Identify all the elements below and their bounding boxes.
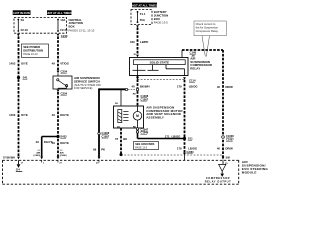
svg-text:49: 49 (52, 141, 56, 145)
battery junction box (131, 10, 152, 25)
callout note box (194, 21, 226, 36)
module boundary dashed box (3, 160, 239, 184)
wire label 40 OR/W lower (217, 146, 233, 150)
svg-text:179: 179 (177, 146, 182, 150)
motor symbol (133, 106, 142, 128)
connector C160 label (190, 51, 197, 58)
compressor relay output caption (205, 176, 232, 183)
service switch caption (74, 76, 101, 90)
relay internal lines (133, 65, 185, 76)
svg-text:S41: S41 (23, 76, 28, 80)
svg-text:40: 40 (131, 85, 135, 89)
svg-text:10A: 10A (60, 18, 65, 22)
fuse F1.1 50A (137, 11, 146, 23)
wire 49 DG/YE below switch (57, 92, 59, 157)
svg-text:S432: S432 (60, 135, 67, 139)
svg-text:RD: RD (133, 93, 137, 95)
svg-text:C1007: C1007 (141, 97, 149, 101)
svg-text:(C490): (C490) (34, 154, 41, 157)
svg-text:BK/WH: BK/WH (140, 85, 149, 89)
svg-text:DO: DO (117, 127, 121, 129)
driver triangle (219, 160, 226, 177)
wire label 40 BK/WH (131, 85, 149, 89)
wire label 433 LB/PK (130, 40, 148, 44)
connector circles C1047 C1046 (136, 127, 148, 134)
svg-text:C1046: C1046 (141, 131, 149, 135)
hot in run label (13, 10, 31, 15)
connector C254 label (top) (61, 69, 68, 73)
svg-text:OR/W: OR/W (225, 146, 233, 150)
relay caption (190, 57, 213, 71)
svg-text:BK: BK (123, 137, 127, 141)
svg-text:HOT IN RUN: HOT IN RUN (13, 11, 29, 15)
svg-text:C1008: C1008 (226, 134, 234, 138)
arrow wire223 into module (222, 157, 225, 160)
svg-text:G4: G4 (16, 168, 20, 172)
wire 40 BK/WH relay to motor (137, 76, 139, 107)
wire label 69 PK (93, 147, 105, 151)
relay bottom connector dashed line C114 (138, 79, 196, 83)
wire branch to x41.7 (42, 136, 58, 138)
svg-text:433: 433 (130, 40, 135, 44)
wire motor output down (137, 128, 139, 139)
svg-text:RD: RD (133, 127, 137, 129)
svg-text:O/YE: O/YE (21, 113, 28, 117)
svg-text:O/YE: O/YE (21, 62, 28, 66)
wire label 40 OR/W upper (217, 85, 233, 89)
wire label 57 BK (115, 137, 127, 141)
svg-text:LB/PK: LB/PK (140, 40, 148, 44)
svg-text:DO: DO (115, 103, 119, 105)
see grounds box (134, 142, 159, 150)
svg-text:(C490): (C490) (60, 154, 67, 157)
hot at all times label (battery junction box) (132, 3, 158, 8)
wire dashed vertical right 40 OR/W (222, 50, 224, 157)
wire 49 VT/OG from CJB to service switch (57, 36, 59, 70)
battery junction box caption (154, 10, 168, 24)
wire battery feed 433 LB/PK (137, 28, 139, 55)
wire label 49 DG/YE branch left (36, 140, 53, 144)
svg-text:DG/YE: DG/YE (60, 141, 69, 145)
wire label 171 LB/OG (165, 135, 181, 139)
svg-text:SOLID STATE: SOLID STATE (150, 60, 169, 64)
wire relay to right dashed feed (181, 50, 183, 58)
svg-text:HOT AT ALL TIMES: HOT AT ALL TIMES (46, 11, 72, 15)
arrow wire58 into module (57, 157, 60, 160)
svg-text:S/M: S/M (226, 158, 230, 160)
connector C2280 label (187, 151, 195, 154)
svg-text:DG/YE: DG/YE (60, 113, 69, 117)
svg-text:F1.1: F1.1 (140, 12, 146, 16)
svg-text:Check current to: Check current to (196, 22, 216, 26)
svg-text:PAGE 13-5: PAGE 13-5 (135, 146, 148, 149)
ground G4 inside module (16, 160, 22, 171)
note small option text right wire (60, 150, 67, 157)
arrow into ground link (183, 153, 186, 156)
svg-text:DISTRIBUTION: DISTRIBUTION (23, 48, 43, 52)
hot at all times label (CJB) (46, 10, 72, 15)
fuse F2.30 (57, 18, 68, 32)
svg-text:49: 49 (52, 62, 56, 66)
svg-text:the Air Suspension: the Air Suspension (196, 26, 219, 30)
svg-text:OR/W: OR/W (225, 85, 233, 89)
air suspension service switch (53, 73, 72, 89)
svg-text:49: 49 (36, 140, 40, 144)
note small option text left wire (34, 150, 41, 157)
wire label 49 DG/YE (52, 113, 69, 117)
arrow into switch connector C254 (57, 71, 60, 74)
solid state inner box (134, 60, 186, 65)
svg-text:LB/OG: LB/OG (189, 85, 198, 89)
motor assembly caption (146, 105, 183, 119)
svg-text:FOR SERVICE): FOR SERVICE) (74, 86, 93, 90)
svg-text:49: 49 (52, 113, 56, 117)
fuse F2.16 (17, 18, 28, 32)
air suspension compressor motor box (114, 106, 144, 128)
wire 1403 O/YE left vertical (18, 36, 20, 156)
wire label 179 LB/OG lower (177, 146, 197, 150)
connector C240 arrows (17, 34, 20, 37)
splice S11 (183, 137, 193, 141)
dashed ground link line (121, 154, 222, 156)
svg-text:PAGE 10-13: PAGE 10-13 (23, 52, 38, 56)
svg-text:VT/OG: VT/OG (60, 62, 69, 66)
svg-text:1403: 1403 (9, 62, 16, 66)
arrow into relay (136, 55, 139, 58)
arrow wire19 into module (17, 157, 20, 160)
module caption (242, 160, 269, 175)
arrow wire99 into module (98, 157, 101, 160)
wire drop to vent solenoid (120, 89, 122, 106)
svg-text:50A: 50A (140, 18, 145, 22)
arrow out of switch connector C254 (57, 90, 60, 93)
svg-text:PAGES 13-11, 13-13: PAGES 13-11, 13-13 (69, 29, 95, 33)
see power distribution box (22, 44, 49, 58)
wire heavy bar to x99 and down (99, 88, 125, 156)
connector C254 label (bottom) (61, 91, 68, 95)
svg-text:69: 69 (93, 147, 97, 151)
connector circles C1008 C1007 on motor feed (125, 88, 148, 101)
arrow relay pin left (136, 77, 139, 80)
wire label 1403 O/YE lower (9, 113, 28, 117)
svg-text:M: M (136, 114, 139, 118)
arrow wire41 into module (40, 157, 43, 160)
svg-text:1403: 1403 (9, 113, 16, 117)
wire dashed horizontal top right (182, 49, 223, 51)
svg-text:5A: 5A (21, 18, 25, 22)
callout pointer lines (202, 36, 205, 57)
svg-text:C254: C254 (61, 69, 68, 73)
arrow relay pin right (183, 77, 186, 80)
svg-text:40: 40 (217, 146, 221, 150)
svg-text:PAGE 13-5: PAGE 13-5 (154, 21, 168, 25)
svg-text:C114: C114 (189, 79, 196, 83)
svg-text:171: 171 (165, 135, 170, 139)
svg-text:F2.30: F2.30 (60, 28, 68, 32)
svg-text:179: 179 (177, 85, 182, 89)
svg-text:57 BK/WH: 57 BK/WH (3, 157, 15, 160)
stub below to module (184, 155, 186, 160)
svg-text:HOT AT ALL TIMES: HOT AT ALL TIMES (132, 3, 158, 7)
svg-text:C1007: C1007 (102, 134, 110, 138)
svg-text:ASSEMBLY: ASSEMBLY (146, 116, 164, 120)
svg-text:LB/OG: LB/OG (188, 146, 197, 150)
svg-text:PK: PK (101, 147, 105, 151)
vent solenoid symbol (118, 110, 129, 123)
central junction box caption (69, 18, 95, 33)
svg-text:C1008: C1008 (141, 94, 149, 98)
central junction box (14, 18, 67, 34)
wire horizontal to splice S11 (138, 138, 185, 140)
svg-text:C1008: C1008 (102, 131, 110, 135)
svg-text:C254: C254 (61, 91, 68, 95)
svg-text:C1007: C1007 (226, 138, 234, 142)
svg-text:57: 57 (115, 137, 119, 141)
wire label 49 VT/OG (52, 62, 69, 66)
svg-text:F2.16: F2.16 (21, 28, 29, 32)
wire 179 LB/OG relay right pin down (184, 80, 186, 153)
connector arrow below battery junction box (136, 25, 139, 28)
svg-text:40: 40 (217, 85, 221, 89)
air suspension compressor relay box (130, 58, 189, 76)
svg-text:C240: C240 (61, 34, 68, 38)
wire label 49 DG/YE branch right (52, 141, 69, 145)
connector C240 label (61, 34, 68, 38)
splice S41 (17, 76, 28, 80)
wire label 1403 O/YE upper (9, 62, 28, 66)
svg-text:LB/OG: LB/OG (172, 135, 181, 139)
junction dot ground link (120, 153, 123, 156)
splice S432 (56, 135, 67, 139)
connector circle C1008 right wire (222, 134, 235, 141)
wire label 179 LB/OG upper (177, 85, 198, 89)
svg-text:RELAY OUTPUT: RELAY OUTPUT (205, 179, 232, 183)
svg-text:MODULE: MODULE (242, 171, 257, 175)
svg-text:Compressor Relay.: Compressor Relay. (196, 29, 219, 33)
svg-text:AB: AB (192, 55, 196, 58)
svg-text:S11: S11 (188, 137, 193, 141)
wire vent solenoid ground 57 BK (120, 128, 122, 155)
svg-text:C160: C160 (190, 51, 197, 55)
connector circle on x99 wire (98, 131, 110, 138)
svg-text:RELAY: RELAY (190, 66, 200, 70)
